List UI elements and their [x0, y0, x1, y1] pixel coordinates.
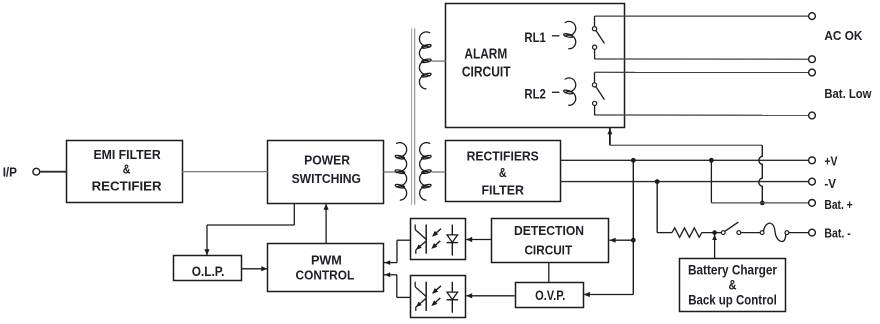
- svg-text:PWM: PWM: [311, 253, 342, 268]
- svg-text:Back up Control: Back up Control: [688, 291, 777, 307]
- svg-text:CIRCUIT: CIRCUIT: [462, 63, 511, 80]
- svg-text:Bat. Low: Bat. Low: [824, 86, 872, 101]
- svg-text:-V: -V: [824, 176, 836, 191]
- svg-text:I/P: I/P: [3, 164, 18, 179]
- svg-text:O.L.P.: O.L.P.: [192, 263, 225, 279]
- svg-text:ALARM: ALARM: [464, 45, 507, 62]
- svg-text:Battery Charger: Battery Charger: [688, 262, 777, 278]
- svg-text:EMI FILTER: EMI FILTER: [93, 147, 161, 162]
- svg-text:O.V.P.: O.V.P.: [535, 287, 565, 303]
- svg-text:FILTER: FILTER: [481, 182, 524, 197]
- svg-text:&: &: [123, 162, 131, 177]
- svg-text:Bat. -: Bat. -: [824, 226, 850, 241]
- svg-text:CIRCUIT: CIRCUIT: [524, 242, 572, 257]
- svg-text:RECTIFIERS: RECTIFIERS: [467, 148, 539, 163]
- svg-text:POWER: POWER: [304, 152, 351, 167]
- svg-text:AC OK: AC OK: [824, 28, 863, 43]
- svg-text:RL2: RL2: [524, 85, 546, 101]
- svg-text:&: &: [729, 276, 737, 292]
- svg-text:RL1: RL1: [524, 29, 546, 45]
- svg-text:&: &: [499, 165, 507, 180]
- svg-text:SWITCHING: SWITCHING: [292, 171, 361, 186]
- svg-text:RECTIFIER: RECTIFIER: [92, 179, 163, 194]
- svg-text:DETECTION: DETECTION: [514, 223, 584, 238]
- svg-text:Bat. +: Bat. +: [824, 197, 853, 212]
- svg-text:+V: +V: [824, 154, 837, 169]
- svg-text:CONTROL: CONTROL: [296, 268, 355, 283]
